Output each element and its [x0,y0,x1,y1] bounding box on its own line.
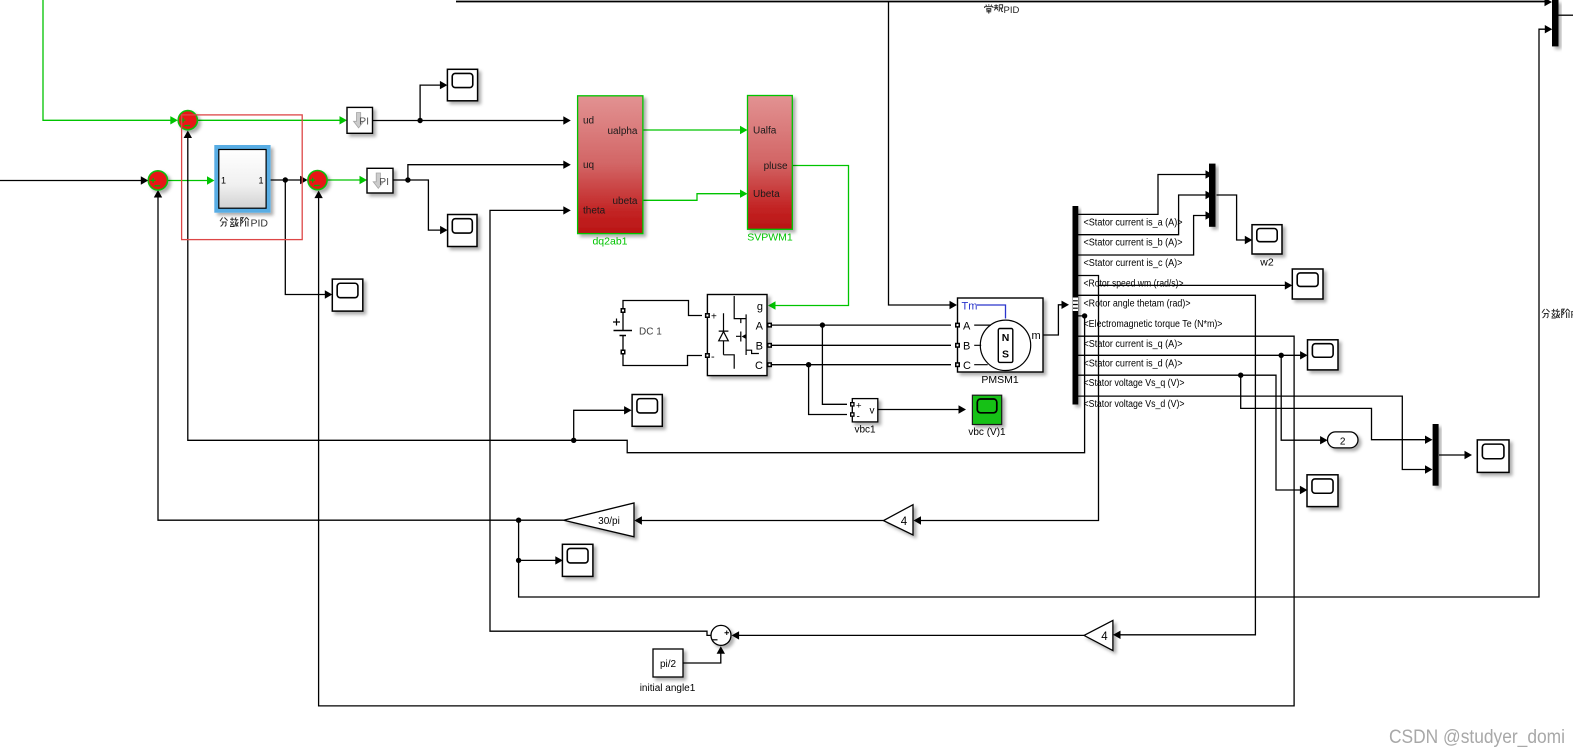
wire phase A [772,324,951,326]
scope rpm [562,544,593,576]
junction phase C [806,362,811,367]
svg-text:<Rotor angle thetam (rad)>: <Rotor angle thetam (rad)> [1084,298,1191,309]
wire current reference input [0,180,142,182]
svg-text:<Stator current is_q (A)>: <Stator current is_q (A)> [1084,339,1183,350]
svg-text:ualpha: ualpha [607,126,637,137]
svg-text:+: + [856,401,862,412]
wire ualpha to Ualfa (green) [643,129,741,131]
svg-text:<Electromagnetic torque Te (N*: <Electromagnetic torque Te (N*m)> [1084,319,1223,330]
svg-text:PMSM1: PMSM1 [981,374,1019,386]
svg-text:vbc1: vbc1 [854,425,876,436]
junction phase A [820,322,825,327]
selection rectangle (red) [182,115,303,240]
wire Vs_q to scope [1078,375,1301,490]
svg-text:ubeta: ubeta [612,196,637,207]
DC source DC 1 [614,331,633,336]
sum junction S3 (q-current error) [308,171,327,190]
wire Te branch to scope [574,410,625,440]
svg-text:PID: PID [1004,5,1020,16]
svg-text:CSDN @studyer_domi: CSDN @studyer_domi [1389,727,1565,748]
junction Te branch [571,438,576,443]
wire Vs_q branch to mux2 [1241,375,1426,440]
wire is_b to mux [1078,195,1207,235]
svg-text:initial angle1: initial angle1 [640,683,696,694]
wire thetam feedback to gain [1078,295,1255,635]
sum initial angle [711,625,731,645]
svg-text:C: C [963,360,971,372]
svg-text:w2: w2 [1259,257,1274,269]
svg-text:ud: ud [583,116,594,127]
junction PI1 output [417,118,422,123]
svg-text:<Stator current is_c (A)>: <Stator current is_c (A)> [1084,258,1183,269]
svg-text:m: m [1032,330,1041,342]
svg-text:A: A [963,320,971,332]
scope voltages [1477,440,1509,473]
gain 4 (speed) [884,505,914,535]
junction subsystem output [283,177,288,182]
wire speed reference (green) [43,0,171,120]
wire PI1 branch to scope [420,85,440,120]
wire PI2 output [393,179,408,181]
wire rpm branch down [519,520,557,560]
svg-text:A: A [756,320,764,332]
scope w2 [1252,225,1282,254]
svg-text:<Stator voltage Vs_d (V)>: <Stator voltage Vs_d (V)> [1084,399,1185,410]
block SVPWM1 [748,96,793,230]
gain 4 (angle) [1084,620,1113,650]
wire mux to scope w2 [1217,195,1246,240]
wire is_q feedback to sum3 [319,197,1295,706]
wire torque reference top [456,1,1546,3]
outport 2 [1328,432,1359,448]
scope torque [632,395,662,427]
wire ubeta to Ubeta (green) [643,194,741,201]
wire pi/2 to sum [683,653,721,664]
svg-text:v: v [870,406,875,417]
scope Scope3 (id ref) [332,279,363,311]
svg-text:B: B [756,340,763,352]
wire sum1 to PI1 (green) [198,119,340,121]
wire subsystem branch to scope [285,180,326,295]
junction Te stub [1082,313,1087,318]
wire 30/pi output to sum2 [158,197,564,521]
svg-text:SVPWM1: SVPWM1 [747,232,793,244]
converter diode and mosfet icon [719,296,759,369]
scope is_d [1308,340,1339,370]
wire rpm to top mux [519,29,1546,597]
svg-text:PID: PID [251,218,269,230]
bus selector [1073,206,1079,405]
wire gain4b to initial-angle sum [738,634,1084,636]
svg-text:2: 2 [1340,436,1346,447]
transform block dq2ab1 [578,96,643,234]
svg-text:<Stator current is_a (A)>: <Stator current is_a (A)> [1084,217,1183,228]
junction rpm branch [516,518,521,523]
wire phase B [772,344,951,346]
label 分数阶PID [220,218,228,227]
wire Vs_d to mux2 [1078,396,1426,469]
wire PI1 output to ud [373,120,565,122]
sum junction S2 (current error) [148,171,167,190]
svg-text:PI: PI [379,176,389,188]
wire theta to dq2ab1 [490,210,711,635]
constant pi/2 [653,649,683,677]
wire Te feedback to sum1 [188,137,1085,453]
wire DC plus to converter [623,301,702,316]
wire wm to scope [1078,276,1286,286]
gain 30/pi [564,503,634,537]
svg-text:B: B [963,340,970,352]
svg-text:4: 4 [901,516,908,528]
svg-text:<Stator current is_d (A)>: <Stator current is_d (A)> [1084,358,1183,369]
wire PI2 to uq [408,165,564,180]
junction rpm branch 2 [516,558,521,563]
svg-text:DC 1: DC 1 [639,327,662,338]
mux top right [1552,0,1559,46]
svg-text:-: - [711,351,715,363]
svg-text:vbc (V)1: vbc (V)1 [968,427,1006,438]
scope wm [1292,269,1323,299]
wire is_c to mux [1078,216,1207,256]
wire vbc1 to scope [878,409,960,411]
sum junction S1 (speed error) [178,111,197,130]
junction is_d branch [1279,353,1284,358]
svg-text:PI: PI [359,116,369,128]
svg-text:uq: uq [583,160,594,171]
wire is_d branch to outport 2 [1281,355,1321,440]
green scope vbc (V)1 [972,395,1001,424]
wire is_d to scope [1078,354,1301,356]
scope Scope1 (ud) [447,69,477,101]
gain block PI2 (current PI) [367,168,393,193]
svg-text:1: 1 [258,176,263,186]
wire DC minus to converter [623,354,702,366]
svg-text:S: S [1002,349,1009,361]
junction Vs_q branch [1238,373,1243,378]
wire sum3 to PI2 (green) [328,179,361,181]
wire Tm drop to PMSM [889,2,951,306]
svg-text:N: N [1002,332,1010,344]
wire phase A to vbc1 plus [822,325,847,404]
svg-text:<Stator current is_b (A)>: <Stator current is_b (A)> [1084,238,1183,249]
label 常规PID [985,4,993,13]
scope Scope2 (uq) [448,215,477,247]
subsystem 分数阶PID [214,145,270,213]
svg-text:pluse: pluse [764,161,788,172]
gain block PI1 (speed PI) [347,107,373,133]
svg-text:dq2ab1: dq2ab1 [592,236,627,248]
svg-text:+: + [711,312,717,323]
svg-text:4: 4 [1101,631,1108,643]
svg-text:Ualfa: Ualfa [753,125,777,136]
wire gain4 to gain 30/pi [641,520,884,522]
wire mux2 to scope [1439,454,1466,456]
svg-text:Ubeta: Ubeta [753,189,780,200]
wire sum2 to subsystem (green) [168,180,209,182]
converter bridge block [707,295,767,376]
svg-text:g: g [757,301,763,313]
bus signal labels [1084,217,1223,410]
wire wm feedback to gain [920,285,1099,520]
svg-text:1: 1 [221,176,226,186]
wire PMSM m to bus selector [1043,305,1063,335]
mux currents [1209,164,1216,227]
wire is_a to mux [1078,175,1207,215]
svg-text:pi/2: pi/2 [660,659,677,670]
svg-text:<Rotor speed wm (rad/s)>: <Rotor speed wm (rad/s)> [1084,279,1184,290]
label 分数阶P (right edge) [1542,309,1550,318]
mux voltages [1433,424,1439,486]
svg-text:theta: theta [583,206,606,217]
scope Vs_q [1307,475,1338,507]
wire phase C [772,364,951,366]
svg-text:Tm: Tm [962,301,978,313]
svg-text:30/pi: 30/pi [598,516,620,527]
wire top mux output [1559,14,1573,16]
junction PI2 output [405,177,410,182]
voltage measurement vbc1 [852,399,878,422]
svg-text:<Stator voltage Vs_q (V)>: <Stator voltage Vs_q (V)> [1084,378,1185,389]
PMSM1 motor block [958,298,1044,372]
svg-text:-: - [857,412,860,423]
wire phase C to vbc1 minus [809,365,847,415]
svg-text:C: C [755,360,763,372]
wire PI2 branch to scope [408,180,441,230]
wire subsystem output to sum3 [269,179,301,181]
wire pluse to converter g (green) [775,166,849,306]
